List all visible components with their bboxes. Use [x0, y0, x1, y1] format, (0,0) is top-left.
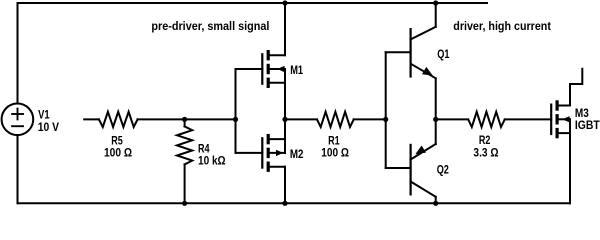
svg-text:10 kΩ: 10 kΩ [198, 156, 226, 168]
wire: bottom ground rail [18, 202, 571, 204]
wire: M1 source/body to output node [284, 69, 286, 119]
wire: Q1 base lead [386, 51, 411, 53]
wire: input lead to R5 [84, 118, 99, 120]
wire: Q1 emitter to output node [435, 78, 437, 119]
svg-text:R1: R1 [328, 135, 340, 147]
resistor R5 [99, 112, 138, 127]
wire: M3 collector lead (open) [570, 69, 582, 106]
node: M1/M2 output junction [282, 117, 287, 122]
svg-text:R5: R5 [111, 135, 123, 147]
transistor Q2 (PNP) [411, 144, 436, 197]
transistor M1 (NMOS) [262, 50, 285, 88]
svg-text:100 Ω: 100 Ω [321, 148, 349, 160]
wire: Q2 base lead [386, 167, 411, 169]
svg-text:3.3 Ω: 3.3 Ω [473, 148, 498, 160]
resistor R2 [468, 112, 505, 127]
wire: Q1 collector to top rail [435, 3, 437, 27]
wire: M2 drain/body up to output node [284, 119, 286, 152]
wire: R4 bottom lead [184, 164, 186, 203]
node: M2 source at ground rail [282, 201, 287, 206]
svg-text:R2: R2 [479, 135, 491, 147]
wire: M1 drain to top rail [284, 3, 286, 55]
node: gate bus junction [233, 117, 238, 122]
wire: Q1/Q2 output to R2 [436, 118, 469, 120]
node: R5/R4 junction [182, 117, 187, 122]
wire: left rail lower segment [17, 135, 19, 203]
wire: base bus vertical [385, 52, 387, 168]
svg-text:driver, high current: driver, high current [453, 21, 551, 33]
node: Q1/Q2 output junction [433, 117, 438, 122]
wire: M2 gate lead [236, 152, 263, 154]
node: Q1 collector at top rail [433, 0, 438, 5]
wire: R5 to gate bus node [138, 118, 236, 120]
transistor Q1 (NPN) [411, 27, 436, 79]
wire: Q2 emitter up to output node [435, 119, 437, 144]
wire: R1 to base bus node [354, 118, 386, 120]
wire: M1 gate lead [236, 68, 263, 70]
wire: top supply rail [18, 2, 488, 4]
node: Q2 collector at ground rail [433, 201, 438, 206]
wire: left rail upper segment [17, 3, 19, 104]
svg-text:Q2: Q2 [437, 165, 449, 177]
wire: M2 source down to ground rail [284, 167, 286, 204]
node: base bus junction [383, 117, 388, 122]
wire: gate bus vertical [235, 69, 237, 153]
svg-text:R4: R4 [198, 144, 210, 156]
svg-text:M1: M1 [290, 65, 303, 77]
node: R4 at ground rail [182, 201, 187, 206]
wire: M1/M2 output to R1 [285, 118, 317, 120]
svg-text:10 V: 10 V [38, 122, 60, 134]
resistor R1 [317, 112, 354, 127]
svg-text:pre-driver, small signal: pre-driver, small signal [151, 21, 269, 33]
resistor R4 [177, 126, 192, 164]
wire: M3 emitter/body to ground rail [569, 119, 571, 203]
transistor M2 (PMOS) [262, 134, 285, 172]
wire: R4 top lead [184, 119, 186, 126]
wire: R2 to M3 gate [505, 118, 552, 120]
voltage source V1 [2, 104, 34, 136]
svg-text:M2: M2 [290, 149, 304, 161]
svg-text:IGBT: IGBT [575, 120, 600, 132]
node: M1 drain at top rail [282, 0, 287, 5]
transistor M3 (IGBT) [551, 100, 570, 138]
svg-text:Q1: Q1 [437, 49, 450, 61]
wire: Q2 collector to ground rail [435, 197, 437, 204]
svg-text:V1: V1 [38, 110, 50, 122]
svg-text:M3: M3 [575, 108, 589, 120]
svg-text:100 Ω: 100 Ω [104, 148, 132, 160]
